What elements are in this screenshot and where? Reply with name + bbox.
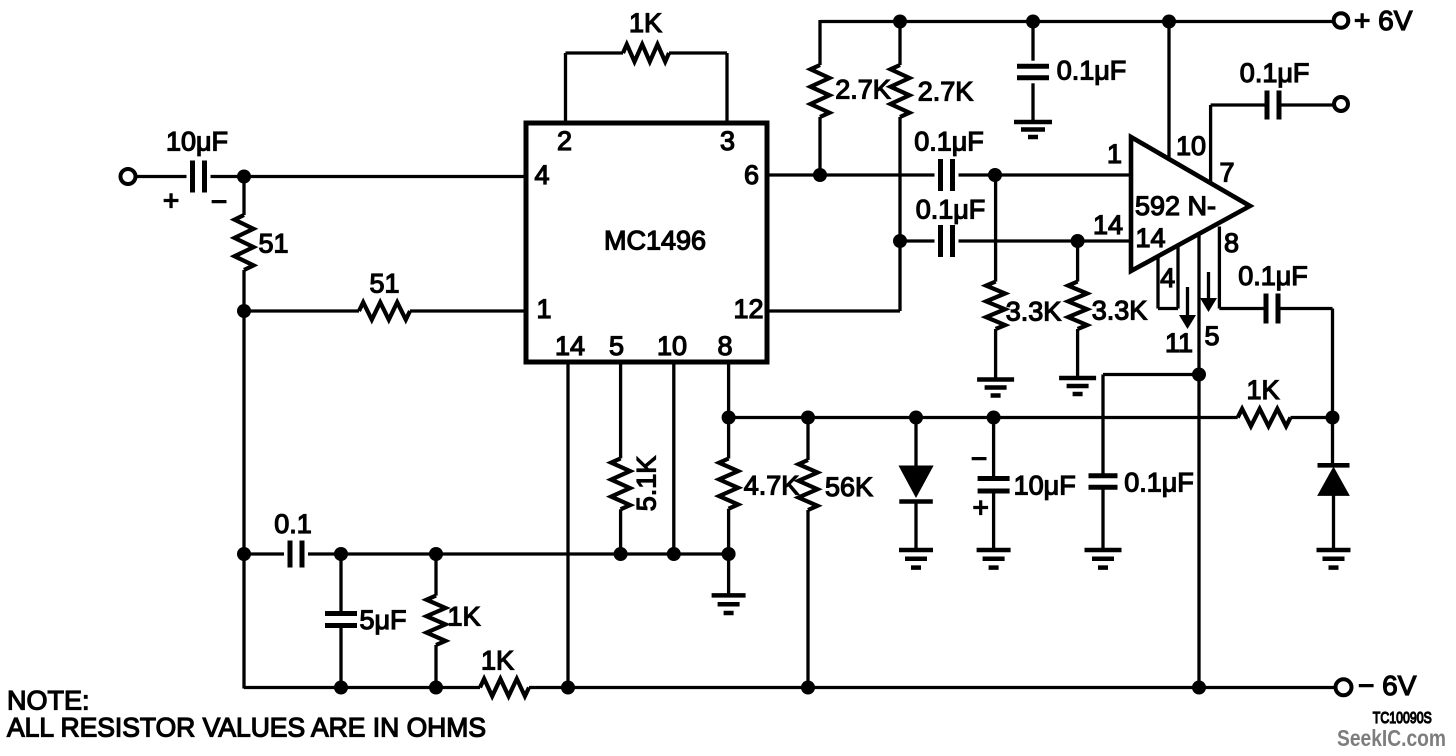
svg-text:−: − (971, 443, 987, 474)
svg-text:1: 1 (1107, 139, 1122, 169)
svg-text:14: 14 (555, 331, 585, 361)
svg-text:1K: 1K (1246, 375, 1279, 405)
svg-text:51: 51 (369, 269, 399, 299)
svg-text:SeekIC.com: SeekIC.com (1337, 725, 1446, 751)
svg-text:MC1496: MC1496 (604, 226, 706, 256)
svg-text:12: 12 (733, 294, 763, 324)
svg-text:5μF: 5μF (359, 605, 406, 635)
svg-text:56K: 56K (825, 472, 873, 502)
svg-text:4: 4 (534, 160, 549, 190)
svg-text:+: + (163, 185, 179, 216)
svg-text:2.7K: 2.7K (918, 77, 974, 107)
svg-text:− 6V: − 6V (1358, 670, 1417, 701)
svg-text:4.7K: 4.7K (744, 471, 800, 501)
svg-text:1K: 1K (629, 8, 662, 38)
svg-text:1: 1 (536, 294, 551, 324)
svg-text:10μF: 10μF (166, 127, 228, 157)
svg-text:8: 8 (1224, 228, 1239, 258)
svg-text:0.1μF: 0.1μF (1124, 468, 1194, 498)
svg-text:2.7K: 2.7K (835, 75, 891, 105)
svg-text:8: 8 (717, 331, 732, 361)
svg-text:51: 51 (258, 229, 288, 259)
svg-text:10: 10 (657, 331, 687, 361)
svg-text:ALL RESISTOR VALUES ARE IN OHM: ALL RESISTOR VALUES ARE IN OHMS (7, 713, 486, 743)
svg-text:7: 7 (1219, 158, 1234, 188)
svg-text:0.1μF: 0.1μF (1238, 261, 1308, 291)
svg-text:0.1μF: 0.1μF (1057, 56, 1127, 86)
svg-text:1K: 1K (447, 602, 480, 632)
svg-text:5: 5 (609, 331, 624, 361)
svg-text:592 N-: 592 N- (1135, 191, 1216, 221)
svg-text:14: 14 (1135, 223, 1165, 253)
svg-text:5: 5 (1204, 321, 1219, 351)
svg-text:10: 10 (1176, 131, 1206, 161)
svg-text:6: 6 (744, 160, 759, 190)
svg-text:1K: 1K (481, 646, 514, 676)
svg-text:0.1μF: 0.1μF (916, 195, 986, 225)
svg-text:2: 2 (557, 126, 572, 156)
svg-text:14: 14 (1093, 210, 1123, 240)
svg-text:−: − (211, 186, 227, 217)
svg-text:3.3K: 3.3K (1006, 297, 1062, 327)
svg-text:11: 11 (1165, 328, 1193, 358)
svg-text:3: 3 (720, 126, 735, 156)
svg-text:5.1K: 5.1K (632, 456, 662, 512)
svg-text:NOTE:: NOTE: (7, 686, 90, 716)
svg-text:0.1: 0.1 (274, 509, 312, 539)
svg-text:4: 4 (1160, 263, 1175, 293)
svg-text:3.3K: 3.3K (1092, 296, 1148, 326)
svg-text:0.1μF: 0.1μF (1240, 58, 1310, 88)
svg-text:0.1μF: 0.1μF (914, 127, 984, 157)
svg-text:10μF: 10μF (1014, 471, 1076, 501)
svg-text:+: + (973, 492, 989, 523)
svg-text:+ 6V: + 6V (1354, 5, 1413, 36)
